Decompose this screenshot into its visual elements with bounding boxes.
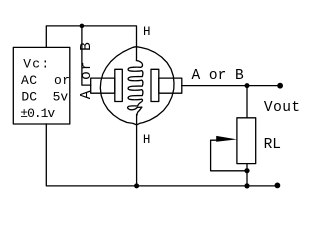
svg-text:Vc:: Vc: — [23, 57, 49, 72]
svg-text:A or B: A or B — [79, 42, 95, 99]
svg-text:H: H — [143, 133, 151, 147]
svg-text:Vout: Vout — [264, 100, 300, 116]
svg-text:DC 5v: DC 5v — [21, 89, 68, 104]
svg-text:A or B: A or B — [192, 68, 245, 84]
svg-text:H: H — [143, 25, 151, 39]
svg-text:±0.1v: ±0.1v — [20, 106, 55, 121]
svg-text:AC or: AC or — [21, 73, 70, 88]
svg-text:RL: RL — [264, 137, 281, 153]
